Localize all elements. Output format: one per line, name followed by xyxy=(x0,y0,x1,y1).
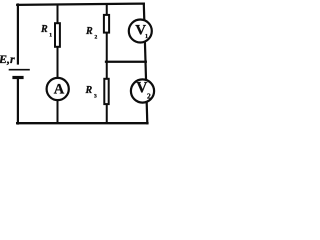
resistor R1 body xyxy=(55,23,60,47)
svg-text:1: 1 xyxy=(145,34,148,40)
svg-text:2: 2 xyxy=(95,34,98,40)
wire right (through V1 and V2) xyxy=(144,4,148,124)
voltmeter V2 circle xyxy=(131,79,154,102)
svg-text:R: R xyxy=(40,24,48,35)
resistor R2 body xyxy=(104,15,109,33)
svg-text:E,r: E,r xyxy=(0,52,15,66)
wire left upper (to battery plate) xyxy=(17,5,19,64)
wire left lower (battery to bottom wire) xyxy=(17,79,19,124)
wire middle (node between R2 and R3 to right edge) xyxy=(106,61,146,63)
resistor R3 body xyxy=(104,79,108,104)
battery E,r short thick plate xyxy=(12,76,23,79)
svg-text:2: 2 xyxy=(147,91,151,100)
voltmeter V1 circle xyxy=(129,20,152,43)
svg-text:R: R xyxy=(85,26,93,37)
wire top xyxy=(17,4,144,5)
wire bottom xyxy=(17,122,147,124)
battery E,r long plate xyxy=(9,69,30,71)
svg-text:1: 1 xyxy=(49,33,52,39)
svg-text:A: A xyxy=(54,81,65,97)
wire branch 1 (carries R1 and ammeter A) xyxy=(57,5,59,124)
ammeter A circle xyxy=(47,78,69,100)
svg-text:R: R xyxy=(85,85,93,96)
svg-text:3: 3 xyxy=(94,93,97,99)
wire branch 2 (carries R2 and R3) xyxy=(106,4,108,123)
